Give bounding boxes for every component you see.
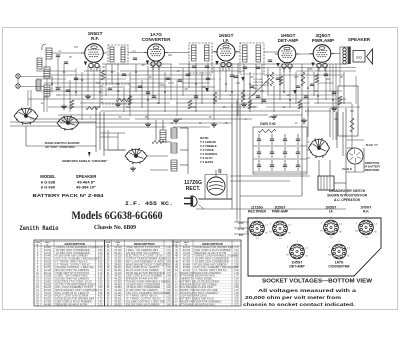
socket voltages panel [248,218,381,276]
svg-text:63-310: 63-310 [114,259,122,261]
svg-text:1.00: 1.00 [234,273,239,275]
antenna coil L1 [46,48,52,59]
resistor R4 [241,90,245,102]
component value labels [41,46,355,125]
svg-text:3.70: 3.70 [166,273,171,275]
svg-text:CONVERTER: CONVERTER [328,265,350,269]
svg-text:SPEAKER 49-464 8 IN PM: SPEAKER 49-464 8 IN PM [55,303,87,306]
svg-text:IN “OFF” POSITION: IN “OFF” POSITION [46,145,76,149]
tone network box DWG 5 H2 [253,122,307,174]
model speaker table [40,174,97,190]
svg-text:ATTACHING MOUNTING RAIL: ATTACHING MOUNTING RAIL [180,303,216,306]
svg-text:Nº: Nº [107,244,109,247]
svg-text:R.F.: R.F. [91,36,99,41]
svg-text:22-801: 22-801 [114,261,122,263]
svg-text:VOLUME: VOLUME [253,79,263,81]
output transformer box [338,86,358,136]
svg-text:63-310: 63-310 [44,279,52,281]
svg-text:1.40: 1.40 [98,301,103,303]
svg-text:2.00: 2.00 [166,299,171,301]
svg-text:80-212: 80-212 [44,287,52,289]
svg-text:46-220: 46-220 [114,279,122,281]
svg-text:SPEAKER: SPEAKER [348,37,371,42]
socket 1N5GT I.F. [324,206,339,235]
svg-text:3M: 3M [141,65,144,67]
choke L8 [171,143,177,153]
svg-text:A.C. OPERATION: A.C. OPERATION [333,198,361,202]
resistor R6 [116,98,130,101]
svg-text:R.F.: R.F. [363,210,369,214]
resistor R3 [301,72,305,86]
capacitor C10 [256,96,260,98]
svg-text:95-512: 95-512 [44,261,52,263]
note changeover switch [327,189,368,202]
svg-text:22K: 22K [167,55,173,57]
volume control R2 [270,72,274,86]
wire tone switch links [230,104,352,181]
svg-text:chassis to socket contact: chassis to socket contact indicated. [243,302,355,308]
svg-text:0.50: 0.50 [98,281,103,283]
svg-text:DET-AMP: DET-AMP [289,265,305,269]
svg-text:3.20: 3.20 [166,287,171,289]
svg-text:SPEAKER: SPEAKER [76,174,98,179]
parts list table [34,240,241,306]
svg-text:CHANGEOVER SWITCH: CHANGEOVER SWITCH [329,189,366,193]
svg-text:1M: 1M [184,89,187,91]
svg-text:80-310: 80-310 [114,270,122,272]
svg-text:22-102: 22-102 [114,290,122,292]
svg-text:500,000 OHM ½W CARBON: 500,000 OHM ½W CARBON [126,302,160,306]
antenna coil L2 [37,58,42,69]
svg-text:95-512: 95-512 [114,301,122,303]
svg-text:95-630: 95-630 [114,264,122,266]
capacitor C3 [56,88,60,90]
svg-text:1.70: 1.70 [234,276,239,278]
tube V4 1H5GT det-amp [275,33,300,72]
ground symbols row [61,94,337,127]
capacitor C7 [178,80,182,82]
svg-text:RESPONSE: RESPONSE [365,168,380,172]
svg-text:DIRECTION: DIRECTION [365,161,379,165]
svg-text:B-: B- [305,111,308,113]
svg-text:95-520: 95-520 [114,304,122,306]
capacitor C12 [219,169,221,173]
svg-text:3.40: 3.40 [166,304,171,306]
svg-text:Zenith Radio: Zenith Radio [20,225,59,232]
svg-text:1M: 1M [252,107,255,109]
arrow marker [88,152,91,157]
svg-text:1.90: 1.90 [234,293,239,295]
socket 1H5GT DET-AMP [289,244,305,268]
svg-text:46-220: 46-220 [44,299,52,301]
wire S3 feeders [100,130,125,150]
svg-text:95-501: 95-501 [114,299,122,301]
resistor R5 [213,92,217,104]
svg-text:47K: 47K [260,90,265,93]
oscillator transformer T1 box [108,45,128,64]
svg-text:BATTERY PACK Nº Z-984: BATTERY PACK Nº Z-984 [33,193,105,198]
svg-text:2M: 2M [249,77,253,79]
svg-text:Nº: Nº [47,244,49,247]
svg-text:RECT.: RECT. [186,186,201,192]
svg-text:63-884: 63-884 [44,247,52,249]
wire tube leads [42,44,340,54]
junction dots [51,71,334,101]
svg-text:MODEL: MODEL [40,174,56,179]
svg-text:2.70: 2.70 [234,247,239,249]
note direction of battery [364,161,381,172]
svg-text:63-884: 63-884 [183,267,191,269]
socket pin voltage labels [246,217,378,263]
choke L7 [171,128,177,138]
svg-text:87-330: 87-330 [114,281,122,283]
svg-text:I.F.: I.F. [329,210,334,214]
svg-text:2.30: 2.30 [166,267,171,269]
svg-text:SHOWN IN POSITION FOR: SHOWN IN POSITION FOR [327,194,368,198]
rectifier tube 117Z6G [184,177,225,195]
svg-text:DET-AMP: DET-AMP [278,38,299,43]
svg-text:2.80: 2.80 [166,253,171,255]
svg-text:470K: 470K [307,68,313,71]
svg-text:1.20: 1.20 [234,290,239,292]
svg-text:46-220: 46-220 [183,259,191,261]
svg-text:REMOVES SHIELD “GROUND”: REMOVES SHIELD “GROUND” [62,159,108,163]
svg-text:AVC: AVC [95,82,101,85]
svg-text:0.70: 0.70 [234,304,239,306]
svg-text:3.60: 3.60 [98,261,103,263]
svg-text:22-140: 22-140 [44,253,52,255]
svg-text:63-445: 63-445 [44,256,52,258]
svg-text:1.80: 1.80 [166,281,171,283]
svg-text:85-144: 85-144 [44,273,52,275]
title models [72,210,163,222]
svg-text:3.00: 3.00 [166,270,171,272]
resistor R7 [86,106,100,109]
svg-text:1.50: 1.50 [234,259,239,261]
svg-text:6V: 6V [119,117,122,119]
resistor R8 [152,140,164,143]
socket voltages heading [262,279,373,285]
svg-text:0.50: 0.50 [234,287,239,289]
svg-text:3.50: 3.50 [166,256,171,258]
svg-text:2.40: 2.40 [234,279,239,281]
svg-text:3.10: 3.10 [234,281,239,283]
svg-text:22-102: 22-102 [44,250,52,252]
band switch S1 [14,107,38,125]
svg-text:RECTIFIER: RECTIFIER [248,210,266,214]
resistor R1 [101,70,105,80]
svg-text:34-116: 34-116 [44,296,52,298]
svg-text:0.80: 0.80 [98,250,103,252]
svg-text:87-330: 87-330 [44,301,52,303]
tone switch S4 [309,138,330,158]
svg-text:63-445: 63-445 [114,296,122,298]
svg-text:49-464: 49-464 [114,284,122,286]
svg-text:63-226: 63-226 [44,276,52,278]
chassis number [94,225,136,231]
svg-text:PLUG B: PLUG B [342,168,352,171]
plug label A [342,143,379,171]
battery pack note [33,193,105,198]
choke L6 [160,130,166,142]
svg-text:PWR-AMP: PWR-AMP [272,210,289,214]
svg-text:1.50: 1.50 [98,253,103,255]
svg-text:SOCKET VOLTAGES—BOTTOM VIEW: SOCKET VOLTAGES—BOTTOM VIEW [262,279,373,285]
coil L5 [44,85,50,96]
svg-text:0.80: 0.80 [234,256,239,258]
svg-text:0.10: 0.10 [98,247,103,249]
antenna terminal A [16,74,20,78]
svg-text:1.00: 1.00 [98,267,103,269]
capacitor C9 [194,96,198,98]
padder capacitor C4 [133,58,137,60]
svg-text:49-464: 49-464 [183,264,191,266]
svg-text:80-212: 80-212 [114,267,122,269]
svg-text:0.70: 0.70 [98,299,103,301]
svg-text:0.60: 0.60 [166,293,171,295]
voltages note paragraph [243,288,356,308]
tone capacitors [253,134,307,172]
note band switch position [45,141,80,149]
svg-text:63-720: 63-720 [44,267,52,269]
svg-text:10-104: 10-104 [114,273,122,275]
trimmer capacitor C2 [64,62,68,64]
svg-text:3.80: 3.80 [234,284,239,286]
svg-text:63-226: 63-226 [114,256,122,258]
svg-text:3K: 3K [315,91,318,93]
svg-text:.005: .005 [294,77,299,79]
socket 117Z6G RECTIFIER [248,206,266,236]
svg-text:T-1 BASS: T-1 BASS [200,160,213,164]
svg-text:1.90: 1.90 [98,287,103,289]
tone switch position note [200,136,218,164]
svg-text:2.60: 2.60 [98,290,103,292]
svg-text:Models 6G638-6G660: Models 6G638-6G660 [72,210,163,222]
svg-text:85V: 85V [239,234,244,237]
grid cap arrows [84,61,315,95]
choke L9 [171,160,177,171]
svg-text:47K: 47K [74,46,79,49]
svg-text:95-520: 95-520 [44,264,52,266]
socket 3Q5GT PWR-AMP [272,206,289,236]
svg-text:I.F.: I.F. [223,38,229,43]
svg-text:34-116: 34-116 [115,276,123,278]
svg-text:49-394 10″: 49-394 10″ [76,185,96,190]
svg-text:2.40: 2.40 [98,273,103,275]
svg-text:10-104: 10-104 [44,293,52,295]
band switch S3 [125,148,147,164]
svg-text:63-118: 63-118 [115,250,123,252]
tube V2 1A7G converter [142,32,172,70]
i.f. transformer T3 [240,43,264,74]
svg-text:4.00: 4.00 [98,296,103,298]
svg-text:80-310: 80-310 [183,250,191,252]
svg-text:3.10: 3.10 [98,276,103,278]
svg-text:10-104: 10-104 [183,253,191,255]
svg-text:2.90: 2.90 [98,259,103,261]
svg-text:Nº: Nº [176,244,178,247]
svg-text:PLUG “A”: PLUG “A” [366,143,379,147]
ground below S3 [130,166,136,171]
svg-text:1.20: 1.20 [98,284,103,286]
svg-text:Chassis No. 6B09: Chassis No. 6B09 [94,225,136,231]
svg-text:A+: A+ [244,118,249,121]
svg-text:I.F. 455 KC.: I.F. 455 KC. [125,200,173,207]
note removes shield ground [62,159,108,163]
i.f. frequency label [125,200,173,207]
oscillator grid box [102,84,130,104]
svg-text:Nº: Nº [37,244,39,247]
svg-text:2.20: 2.20 [234,261,239,263]
svg-text:87-330: 87-330 [183,261,191,263]
wire bus [20,64,360,127]
svg-text:PWR.AMP: PWR.AMP [312,38,334,43]
svg-text:3.30: 3.30 [98,293,103,295]
svg-text:85-144: 85-144 [114,253,122,255]
svg-text:1.40: 1.40 [166,247,171,249]
power plug [184,196,232,210]
svg-text:27.5V: 27.5V [238,228,245,231]
svg-text:0.40: 0.40 [166,276,171,278]
zenith radio label [20,225,59,232]
svg-text:80-212: 80-212 [183,247,191,249]
coupling capacitor C5 [268,60,272,62]
ground terminal G [16,84,20,88]
svg-text:.0001: .0001 [43,97,49,99]
capacitor C6 [230,75,234,77]
i.f. transformer T2 [189,43,212,73]
svg-text:90V: 90V [326,79,331,81]
detector diagonal wire [248,78,270,99]
svg-text:POSITION FOR: POSITION FOR [253,85,269,87]
svg-text:49-464: 49-464 [44,304,52,306]
svg-text:2.10: 2.10 [166,250,171,252]
svg-text:3.80: 3.80 [98,279,103,281]
svg-text:4.00: 4.00 [234,301,239,303]
tube V3 1N5GT I.F. [214,33,239,71]
svg-text:2.50: 2.50 [166,284,171,286]
svg-text:95-501: 95-501 [44,259,52,261]
tube V5 3Q5GT pwr amp [310,33,335,72]
wire rectifier loop [198,104,232,209]
svg-text:3.30: 3.30 [234,299,239,301]
svg-text:0.30: 0.30 [234,270,239,272]
svg-text:Nº: Nº [186,244,188,247]
svg-text:3.40: 3.40 [234,250,239,252]
svg-text:OF BATTERY: OF BATTERY [364,165,381,169]
socket 1N5GT R.F. [359,206,374,235]
svg-text:22-801: 22-801 [44,281,52,283]
svg-text:6 G 660: 6 G 660 [41,185,56,190]
svg-text:2.10: 2.10 [98,304,103,306]
svg-text:OSC: OSC [160,85,165,87]
speaker LS1 [340,37,373,64]
svg-text:95-630: 95-630 [44,284,52,286]
coil L4 [36,80,41,90]
svg-text:63-118: 63-118 [44,270,52,272]
svg-text:80-310: 80-310 [44,290,52,292]
antenna coil L3 [44,67,50,78]
svg-text:34-116: 34-116 [183,256,191,258]
svg-text:22-140: 22-140 [114,293,122,295]
svg-text:CONVERTER: CONVERTER [142,37,172,42]
socket 1A7G CONVERTER [328,244,350,268]
band switch S2 [57,115,79,130]
battery plug receptacle [347,148,363,164]
svg-text:2M: 2M [191,107,195,109]
tone resistor R9 [258,129,276,132]
wire right section [196,100,364,218]
extra capacitors along buses [66,74,336,102]
svg-text:3.60: 3.60 [234,267,239,269]
svg-text:63-884: 63-884 [114,287,122,289]
capacitor C11 [310,84,314,86]
capacitor C8 [146,92,150,94]
wire to band switch [10,106,168,156]
svg-text:117V: 117V [238,222,244,225]
detector annotation [253,79,269,90]
extra resistors [70,74,342,109]
trimmer capacitor C1 [56,55,60,57]
battery pack B1 [318,176,334,190]
wire verticals [18,57,356,140]
svg-text:2.70: 2.70 [166,301,171,303]
svg-text:2.60: 2.60 [234,296,239,298]
svg-text:0.20: 0.20 [166,259,171,261]
svg-text:1.30: 1.30 [166,296,171,298]
tube V1 1N5GT R.F. [81,31,107,72]
wire stubs into panel [234,218,249,234]
svg-text:Nº: Nº [117,244,119,247]
svg-text:20,000 ohm per volt meter: 20,000 ohm per volt meter from [245,295,341,301]
svg-text:63-720: 63-720 [114,247,122,249]
svg-text:1.60: 1.60 [166,264,171,266]
svg-text:1.70: 1.70 [98,270,103,272]
svg-text:250: 250 [235,83,241,85]
voltage labels [238,222,245,237]
svg-text:DWG 5 H2: DWG 5 H2 [260,122,276,126]
wire filter section [150,120,188,174]
svg-text:0.30: 0.30 [98,264,103,266]
svg-text:All voltages measured with: All voltages measured with a [258,288,356,294]
